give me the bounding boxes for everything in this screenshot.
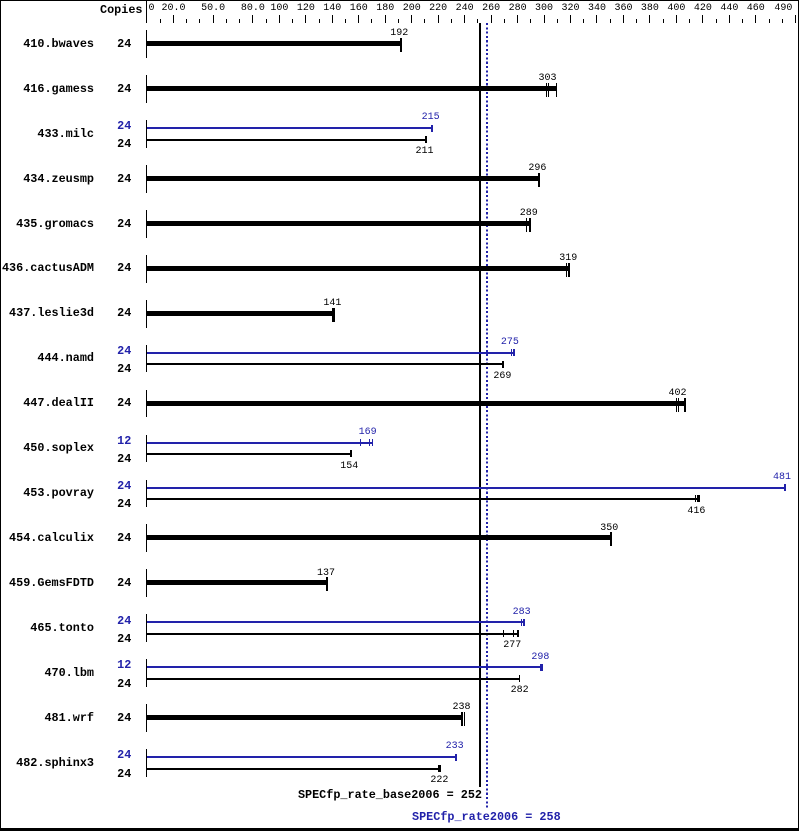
bar 410.bwaves base value 192	[147, 41, 402, 46]
row 454.calculix copies	[117, 533, 131, 545]
vertical dotted line peak median 258	[486, 23, 488, 808]
border bottom	[0, 828, 799, 831]
bar end tick	[698, 495, 699, 502]
border top	[0, 0, 799, 1]
value label 481	[773, 473, 791, 483]
bar 433.milc peak value 215	[147, 127, 433, 129]
run tick	[546, 83, 547, 97]
bar end tick	[502, 361, 504, 368]
bar end tick	[556, 83, 558, 97]
run tick	[513, 630, 514, 637]
row 450.soplex peak copies	[117, 436, 131, 448]
row 454.calculix axis cap	[146, 524, 147, 552]
bar end tick	[538, 173, 540, 187]
bar 444.namd base value 269	[147, 363, 504, 365]
bar end tick	[350, 450, 352, 457]
row 481.wrf axis cap	[146, 704, 147, 732]
row 470.lbm peak copies	[117, 660, 131, 672]
row 435.gromacs copies	[117, 219, 131, 231]
row 416.gamess copies	[117, 84, 131, 96]
value label 283	[513, 608, 531, 618]
value label 319	[559, 254, 577, 264]
row 453.povray peak copies	[117, 481, 131, 493]
bar 470.lbm peak value 298	[147, 666, 543, 668]
value label 211	[416, 147, 434, 157]
row 416.gamess axis cap	[146, 75, 147, 103]
row 450.soplex base copies	[117, 454, 131, 466]
value label 416	[687, 507, 705, 517]
row 435.gromacs axis cap	[146, 210, 147, 238]
run tick	[695, 495, 696, 502]
row 481.wrf copies	[117, 713, 131, 725]
bar end tick	[332, 308, 335, 322]
bar 437.leslie3d base value 141	[147, 311, 335, 316]
row 433.milc base copies	[117, 139, 131, 151]
row 410.bwaves copies	[117, 39, 131, 51]
row 453.povray axis cap	[146, 480, 147, 508]
bar 465.tonto base value 277	[147, 633, 519, 635]
summary peak median	[412, 812, 561, 824]
row 453.povray base copies	[117, 499, 131, 511]
bar 459.GemsFDTD base value 137	[147, 580, 328, 585]
bar end tick	[438, 765, 440, 772]
run tick	[503, 630, 504, 637]
row 459.GemsFDTD axis cap	[146, 569, 147, 597]
bar 453.povray base value 416	[147, 498, 700, 500]
row 434.zeusmp axis cap	[146, 165, 147, 193]
axis scale labels	[161, 4, 185, 14]
bar end tick	[684, 398, 686, 412]
value label 402	[669, 389, 687, 399]
value label 154	[340, 462, 358, 472]
value label 222	[430, 776, 448, 786]
header Copies	[100, 5, 142, 17]
row 437.leslie3d axis cap	[146, 300, 147, 328]
value label 215	[422, 113, 440, 123]
row 444.namd peak copies	[117, 346, 131, 358]
border right	[798, 0, 799, 831]
row 444.namd base copies	[117, 364, 131, 376]
bar 465.tonto peak value 283	[147, 621, 525, 623]
bar end tick	[540, 664, 543, 671]
run tick	[521, 619, 522, 626]
value label 141	[323, 299, 341, 309]
bar end tick	[529, 218, 531, 232]
value label 233	[446, 742, 464, 752]
value label 303	[539, 74, 557, 84]
row 459.GemsFDTD name	[9, 578, 94, 590]
row 465.tonto peak copies	[117, 616, 131, 628]
row 436.cactusADM axis cap	[146, 255, 147, 283]
axis label 0	[149, 4, 155, 14]
value label 277	[503, 641, 521, 651]
row 436.cactusADM name	[2, 263, 94, 275]
row 434.zeusmp name	[23, 174, 94, 186]
row 450.soplex axis cap	[146, 435, 147, 463]
bar end tick	[431, 125, 433, 132]
bar 450.soplex peak value 169	[147, 442, 373, 444]
bar 482.sphinx3 base value 222	[147, 768, 441, 770]
value label 296	[528, 164, 546, 174]
bar end tick	[519, 675, 520, 682]
row 454.calculix name	[9, 533, 94, 545]
row 453.povray name	[23, 488, 94, 500]
bar end tick	[326, 577, 328, 591]
run tick	[369, 439, 370, 446]
row 433.milc name	[37, 129, 94, 141]
row 450.soplex name	[23, 443, 94, 455]
bar 450.soplex base value 154	[147, 453, 352, 455]
row 410.bwaves name	[23, 39, 94, 51]
value label 269	[493, 372, 511, 382]
y-axis line top segment	[146, 0, 147, 23]
row 482.sphinx3 base copies	[117, 769, 131, 781]
value label 192	[390, 29, 408, 39]
row 447.dealII copies	[117, 398, 131, 410]
row 481.wrf name	[44, 713, 94, 725]
value label 298	[531, 653, 549, 663]
row 447.dealII name	[23, 398, 94, 410]
value label 282	[511, 686, 529, 696]
row 447.dealII axis cap	[146, 390, 147, 418]
value label 275	[501, 338, 519, 348]
run tick	[464, 712, 465, 726]
bar end tick	[568, 263, 570, 277]
row 436.cactusADM copies	[117, 263, 131, 275]
bar 435.gromacs base value 289	[147, 221, 531, 226]
run tick	[360, 439, 361, 446]
run tick	[697, 495, 698, 502]
row 465.tonto base copies	[117, 634, 131, 646]
bar 447.dealII base value 402	[147, 401, 686, 406]
bar end tick	[513, 349, 515, 356]
row 433.milc peak copies	[117, 121, 131, 133]
bar 416.gamess base value 303	[147, 86, 557, 91]
row 482.sphinx3 axis cap	[146, 749, 147, 777]
row 444.namd name	[37, 353, 94, 365]
bar 481.wrf base value 238	[147, 715, 463, 720]
row 437.leslie3d copies	[117, 308, 131, 320]
run tick	[548, 83, 549, 97]
row 434.zeusmp copies	[117, 174, 131, 186]
axis tick marks (top ruler)	[160, 19, 161, 23]
row 410.bwaves axis cap	[146, 30, 147, 58]
bar end tick	[610, 532, 612, 546]
bar end tick	[455, 754, 457, 761]
run tick	[511, 349, 512, 356]
row 437.leslie3d name	[9, 308, 94, 320]
vertical line base median 252	[479, 23, 481, 787]
border left	[0, 0, 1, 831]
bar end tick	[523, 619, 525, 626]
bar end tick	[425, 136, 427, 143]
bar 433.milc base value 211	[147, 139, 427, 141]
bar end tick	[400, 38, 402, 52]
value label 169	[359, 428, 377, 438]
run tick	[676, 398, 677, 412]
row 470.lbm base copies	[117, 679, 131, 691]
bar end tick	[372, 439, 373, 446]
value label 137	[317, 569, 335, 579]
value label 238	[453, 703, 471, 713]
row 482.sphinx3 name	[16, 758, 94, 770]
bar end tick	[784, 484, 786, 491]
run tick	[566, 263, 567, 277]
run tick	[678, 398, 679, 412]
value label 289	[520, 209, 538, 219]
row 435.gromacs name	[16, 219, 94, 231]
bar 436.cactusADM base value 319	[147, 266, 570, 271]
row 433.milc axis cap	[146, 120, 147, 148]
bar end tick	[517, 630, 519, 637]
row 482.sphinx3 peak copies	[117, 750, 131, 762]
bar end tick	[461, 712, 463, 726]
row 465.tonto axis cap	[146, 614, 147, 642]
value label 350	[600, 524, 618, 534]
row 470.lbm name	[44, 668, 94, 680]
bar 482.sphinx3 peak value 233	[147, 756, 457, 758]
row 459.GemsFDTD copies	[117, 578, 131, 590]
row 465.tonto name	[30, 623, 94, 635]
summary base median	[298, 790, 482, 802]
bar 444.namd peak value 275	[147, 352, 515, 354]
run tick	[526, 218, 527, 232]
row 416.gamess name	[23, 84, 94, 96]
row 470.lbm axis cap	[146, 659, 147, 687]
bar 470.lbm base value 282	[147, 678, 520, 680]
bar 434.zeusmp base value 296	[147, 176, 540, 181]
bar 453.povray peak value 481	[147, 487, 786, 489]
row 444.namd axis cap	[146, 345, 147, 373]
bar 454.calculix base value 350	[147, 535, 612, 540]
